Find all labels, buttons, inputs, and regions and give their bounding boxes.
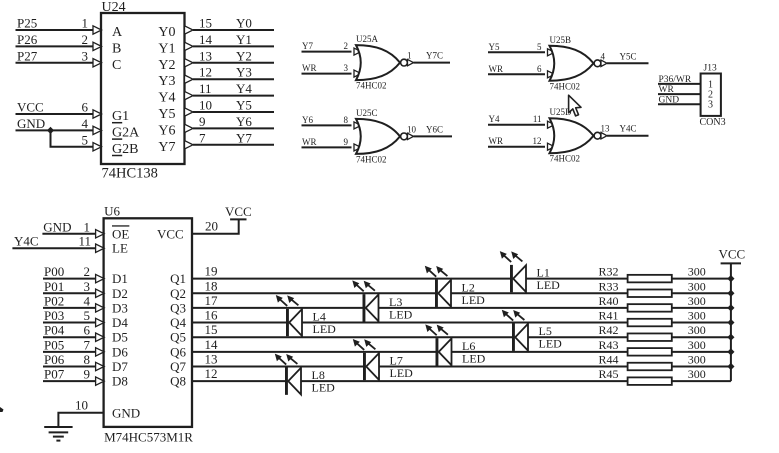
svg-text:74HC138: 74HC138 (102, 166, 158, 182)
wire LED L2 to resistor R33 (451, 292, 628, 294)
svg-text:74HC02: 74HC02 (356, 81, 387, 91)
wire P05 to U6 pin 7 (43, 351, 96, 353)
svg-text:LED: LED (389, 307, 413, 321)
svg-text:Y6: Y6 (158, 123, 175, 138)
svg-text:LED: LED (312, 381, 336, 395)
svg-text:13: 13 (199, 48, 212, 63)
svg-text:Y2: Y2 (158, 58, 175, 73)
wire U25C output to Y6C (414, 135, 453, 137)
wire P06 to U6 pin 8 (43, 366, 96, 368)
svg-text:J13: J13 (704, 64, 717, 74)
IC U24 74HC138 decoder body (101, 13, 185, 164)
svg-text:U25C: U25C (356, 108, 378, 118)
svg-text:WR: WR (302, 137, 317, 147)
svg-text:Q7: Q7 (170, 359, 186, 374)
svg-text:D6: D6 (112, 344, 128, 359)
LED L2 emission arrow 1 (425, 266, 436, 277)
svg-text:4: 4 (601, 51, 606, 61)
U24 pin name G1 (active low) (112, 109, 129, 124)
svg-text:R33: R33 (598, 279, 618, 293)
U25D pin 11 input arrow (548, 121, 555, 128)
wire LED L3 to resistor R40 (379, 307, 628, 309)
svg-text:11: 11 (533, 114, 542, 124)
U6 pin 6 input arrow (96, 333, 105, 341)
svg-text:2: 2 (84, 264, 91, 279)
wire U6 Q3 to LED L3 (192, 307, 363, 309)
svg-text:P06: P06 (44, 352, 65, 367)
wire U24 Y6 output (193, 127, 274, 129)
wire P01 to U6 pin 3 (43, 292, 96, 294)
svg-text:G2A: G2A (112, 125, 140, 140)
U6 pin 2 input arrow (96, 274, 105, 282)
wire U24 Y5 output (193, 111, 274, 113)
svg-text:Y0: Y0 (158, 25, 175, 40)
svg-text:Y7: Y7 (236, 130, 252, 145)
svg-text:17: 17 (205, 293, 219, 308)
U24 pin 5 input arrow (93, 143, 102, 151)
svg-text:R44: R44 (598, 353, 618, 367)
wire WR to J13 pin 2 (658, 93, 701, 95)
wire P04 to U6 pin 6 (43, 336, 96, 338)
LED L7 emission arrow 2 (364, 339, 375, 349)
svg-text:Y6: Y6 (236, 114, 252, 129)
wire resistor R44 to VCC rail (672, 366, 731, 368)
svg-text:G1: G1 (112, 109, 129, 124)
U25B pin 6 input arrow (548, 71, 555, 78)
svg-text:3: 3 (708, 100, 713, 111)
svg-text:3: 3 (84, 279, 91, 294)
resistor R42 body (628, 333, 672, 341)
svg-text:P27: P27 (17, 48, 38, 63)
LED L8 cathode bar (285, 367, 288, 394)
svg-text:LED: LED (462, 351, 486, 365)
svg-text:Y6C: Y6C (426, 124, 443, 134)
U25C output arrow (408, 133, 414, 139)
resistor R40 body (628, 304, 672, 312)
resistor R32 body (628, 275, 672, 283)
svg-text:WR: WR (489, 136, 504, 146)
svg-text:8: 8 (344, 115, 349, 125)
wire Y4 to U25D pin 11 (488, 124, 545, 126)
LED L8 emission arrow 1 (275, 354, 286, 365)
wire Y5 to U25B pin 5 (488, 51, 545, 53)
svg-text:R32: R32 (598, 265, 618, 279)
U24 pin 3 input arrow (93, 59, 102, 67)
resistor R43 body (628, 348, 672, 356)
wire GND branch down to U24 pin 5 (G2B) (51, 130, 94, 146)
svg-text:LED: LED (462, 293, 486, 307)
svg-text:Y0: Y0 (236, 16, 252, 31)
U25D output arrow (601, 133, 607, 139)
svg-text:R42: R42 (598, 323, 618, 337)
svg-text:Y3: Y3 (158, 74, 175, 89)
wire LED L7 to resistor R44 (379, 366, 628, 368)
svg-text:P03: P03 (44, 308, 64, 323)
wire resistor R42 to VCC rail (672, 336, 731, 338)
LED L1 emission arrow 2 (511, 251, 522, 261)
svg-text:LED: LED (539, 337, 563, 351)
wire U6 pin 10 to ground (58, 413, 103, 427)
svg-text:P07: P07 (44, 367, 65, 382)
wire P03 to U6 pin 5 (43, 322, 96, 324)
svg-text:Q5: Q5 (170, 330, 186, 345)
svg-text:Y4: Y4 (236, 81, 252, 96)
wire U6 Q6 to LED L6 (192, 351, 436, 353)
U25C pin 8 input arrow (354, 122, 361, 129)
wire P00 to U6 pin 2 (43, 278, 96, 280)
U24 pin name G2A (active low) (112, 125, 140, 140)
resistor R44 body (628, 363, 672, 371)
LED L5 emission arrow 1 (502, 310, 513, 321)
U6 pin 11 input arrow (96, 244, 105, 252)
svg-text:B: B (112, 41, 121, 56)
svg-text:U25B: U25B (550, 35, 572, 45)
svg-text:74HC02: 74HC02 (356, 154, 387, 164)
U25C output inversion bubble (401, 133, 408, 140)
svg-text:D7: D7 (112, 359, 128, 374)
VCC power symbol at U6 pin 20 (230, 218, 246, 220)
svg-text:300: 300 (688, 323, 706, 337)
U6 pin 1 input arrow (96, 230, 105, 238)
svg-text:2: 2 (82, 32, 89, 47)
U25D output inversion bubble (594, 132, 601, 139)
wire LED L5 to resistor R42 (528, 336, 628, 338)
resistor R41 body (628, 319, 672, 327)
U24 pin 11 output arrow (185, 91, 194, 99)
U25A pin 2 input arrow (354, 48, 361, 55)
wire GND to J13 pin 3 (658, 103, 701, 105)
svg-text:13: 13 (601, 124, 611, 134)
LED L4 triangle (289, 309, 302, 336)
ground symbol (44, 427, 72, 441)
wire WR to U25D pin 12 (488, 146, 545, 148)
svg-text:P05: P05 (44, 337, 64, 352)
wire U6 Q5 to LED L5 (192, 336, 512, 338)
svg-text:5: 5 (84, 308, 91, 323)
svg-text:GND: GND (17, 116, 45, 131)
svg-text:Y5: Y5 (158, 107, 175, 122)
LED L2 triangle (438, 280, 451, 307)
wire resistor R45 to VCC rail (672, 380, 731, 382)
svg-text:12: 12 (199, 65, 212, 80)
svg-text:G2B: G2B (112, 142, 138, 157)
wire LED L8 to resistor R45 (301, 380, 628, 382)
svg-text:14: 14 (205, 337, 219, 352)
svg-text:D5: D5 (112, 330, 128, 345)
svg-text:20: 20 (205, 218, 218, 233)
wire WR to U25A pin 3 (302, 73, 352, 75)
svg-text:300: 300 (688, 338, 706, 352)
NOR gate U25A body (356, 45, 400, 80)
svg-text:7: 7 (84, 337, 91, 352)
svg-text:WR: WR (302, 63, 317, 73)
wire U6 Q1 to LED L1 (192, 278, 510, 280)
svg-text:6: 6 (537, 64, 542, 74)
wire resistor R32 to VCC rail (672, 278, 731, 280)
svg-text:5: 5 (82, 132, 89, 147)
wire LED L4 to resistor R41 (302, 322, 628, 324)
svg-text:GND: GND (112, 405, 140, 420)
svg-text:LED: LED (390, 366, 414, 380)
svg-text:300: 300 (688, 294, 706, 308)
junction dot on VCC rail at R42 (727, 334, 734, 341)
wire WR to U25B pin 6 (488, 73, 545, 75)
LED L8 emission arrow 2 (286, 354, 297, 364)
LED L4 cathode bar (286, 309, 289, 336)
svg-text:Y1: Y1 (158, 41, 175, 56)
LED L3 cathode bar (363, 294, 366, 321)
svg-text:Y7C: Y7C (426, 51, 443, 61)
svg-text:Q4: Q4 (170, 315, 186, 330)
LED L8 triangle (288, 368, 301, 395)
svg-text:2: 2 (344, 41, 349, 51)
wire U25B output to Y5C (607, 62, 649, 64)
svg-text:Y5: Y5 (489, 42, 500, 52)
NOR gate U25D body (550, 118, 594, 153)
junction dot on VCC rail at R40 (727, 304, 734, 311)
svg-text:R40: R40 (598, 294, 618, 308)
U25A output arrow (408, 59, 414, 65)
svg-text:300: 300 (688, 265, 706, 279)
svg-text:74HC02: 74HC02 (550, 81, 581, 91)
U24 pin 15 output arrow (185, 26, 194, 34)
svg-text:D2: D2 (112, 286, 128, 301)
resistor R33 body (628, 290, 672, 298)
U25B output inversion bubble (594, 60, 601, 67)
wire U24 Y2 output (193, 62, 274, 64)
svg-text:OE: OE (112, 226, 129, 241)
svg-text:Q6: Q6 (170, 344, 186, 359)
svg-text:11: 11 (78, 234, 91, 249)
wire U25D output to Y4C (607, 135, 649, 137)
svg-text:1: 1 (82, 16, 89, 31)
svg-text:C: C (112, 58, 121, 73)
U6 pin 7 input arrow (96, 348, 105, 356)
wire resistor R33 to VCC rail (672, 292, 731, 294)
svg-text:18: 18 (205, 278, 218, 293)
junction dot on VCC rail at R41 (727, 319, 734, 326)
wire U24 Y0 output (193, 29, 274, 31)
svg-text:D1: D1 (112, 271, 128, 286)
svg-text:VCC: VCC (719, 247, 746, 262)
svg-text:Y4C: Y4C (620, 124, 637, 134)
U24 pin 4 input arrow (93, 126, 102, 134)
U24 pin 2 input arrow (93, 42, 102, 50)
svg-text:11: 11 (199, 81, 212, 96)
LED L3 emission arrow 2 (364, 281, 375, 291)
svg-text:13: 13 (205, 352, 218, 367)
LED L3 triangle (366, 295, 379, 322)
junction dot on VCC rail at R33 (727, 290, 734, 297)
LED L5 cathode bar (512, 324, 515, 351)
svg-text:D4: D4 (112, 315, 128, 330)
svg-text:VCC: VCC (225, 204, 252, 219)
wire LED L6 to resistor R43 (452, 351, 628, 353)
IC U6 M74HC573M1R latch body (104, 218, 192, 427)
svg-text:R41: R41 (598, 309, 618, 323)
svg-text:300: 300 (688, 353, 706, 367)
wire U6 pin 20 to VCC (192, 219, 239, 233)
svg-text:1: 1 (84, 219, 91, 234)
svg-text:4: 4 (84, 293, 91, 308)
U6 pin 8 input arrow (96, 362, 105, 370)
svg-text:12: 12 (205, 366, 218, 381)
wire GND to U24 pin 4 (G2A) (16, 129, 94, 131)
LED L7 emission arrow 1 (353, 339, 364, 350)
svg-text:10: 10 (75, 397, 88, 412)
svg-text:Y6: Y6 (302, 115, 313, 125)
svg-text:D8: D8 (112, 374, 128, 389)
wire P02 to U6 pin 4 (43, 307, 96, 309)
svg-text:A: A (112, 25, 123, 40)
LED L4 emission arrow 1 (276, 295, 287, 306)
U24 pin 12 output arrow (185, 75, 194, 83)
svg-text:LED: LED (313, 322, 337, 336)
U25C pin 9 input arrow (354, 144, 361, 151)
U24 pin 13 output arrow (185, 59, 194, 67)
svg-text:7: 7 (199, 130, 206, 145)
svg-text:9: 9 (199, 114, 206, 129)
U6 pin 5 input arrow (96, 318, 105, 326)
wire Y4C to U6 pin 11 (LE) (12, 247, 96, 249)
wire resistor R40 to VCC rail (672, 307, 731, 309)
junction dot on VCC rail at R32 (727, 275, 734, 282)
svg-text:P36/WR: P36/WR (659, 75, 692, 85)
svg-text:300: 300 (688, 309, 706, 323)
svg-text:300: 300 (688, 367, 706, 381)
LED L5 triangle (515, 324, 528, 351)
junction dot on GND net (47, 127, 54, 134)
wire U24 Y7 output (193, 144, 274, 146)
wire VCC to U24 pin 6 (G1) (16, 113, 94, 115)
svg-text:WR: WR (659, 85, 675, 95)
svg-text:Q2: Q2 (170, 286, 186, 301)
svg-text:1: 1 (407, 51, 412, 61)
U6 pin 4 input arrow (96, 304, 105, 312)
svg-text:Y5: Y5 (236, 98, 252, 113)
U25B pin 5 input arrow (548, 49, 555, 56)
junction dot on VCC rail at R44 (727, 363, 734, 370)
svg-text:Q8: Q8 (170, 374, 186, 389)
svg-text:P25: P25 (17, 16, 37, 31)
U24 pin 14 output arrow (185, 42, 194, 50)
wire P07 to U6 pin 9 (43, 380, 96, 382)
svg-text:Y3: Y3 (236, 65, 252, 80)
svg-text:10: 10 (407, 124, 417, 134)
U24 pin 7 output arrow (185, 141, 194, 149)
U24 pin 9 output arrow (185, 124, 194, 132)
U25A pin 3 input arrow (354, 70, 361, 77)
wire LED L1 to resistor R32 (526, 278, 628, 280)
U25D pin 12 input arrow (548, 143, 555, 150)
resistor R45 body (628, 377, 672, 385)
wire WR to U25C pin 9 (302, 146, 352, 148)
svg-text:VCC: VCC (17, 100, 44, 115)
LED L2 cathode bar (435, 280, 438, 307)
wire resistor R43 to VCC rail (672, 351, 731, 353)
svg-text:10: 10 (199, 98, 212, 113)
VCC power symbol bar on rail (721, 262, 741, 264)
junction dot on VCC rail at R43 (727, 348, 734, 355)
U24 pin 10 output arrow (185, 108, 194, 116)
wire U24 Y4 output (193, 95, 274, 97)
wire U24 Y1 output (193, 45, 274, 47)
LED L4 emission arrow 2 (287, 295, 298, 305)
LED L2 emission arrow 2 (436, 266, 447, 276)
U6 pin 9 input arrow (96, 377, 105, 385)
U25B output arrow (601, 60, 607, 66)
svg-text:R45: R45 (598, 367, 618, 381)
svg-text:U24: U24 (102, 0, 126, 15)
svg-text:U6: U6 (104, 204, 120, 219)
svg-text:U25A: U25A (356, 34, 378, 44)
svg-text:12: 12 (533, 136, 542, 146)
svg-text:R43: R43 (598, 338, 618, 352)
wire GND to U6 pin 1 (OE) (42, 233, 96, 235)
wire P26 to U24 pin 2 (16, 45, 94, 47)
svg-text:14: 14 (199, 32, 213, 47)
wire P36/WR to J13 pin 1 (658, 83, 701, 85)
svg-text:15: 15 (199, 16, 212, 31)
svg-text:Y7: Y7 (158, 140, 175, 155)
wire Y7 to U25A pin 2 (302, 51, 352, 53)
U25A output inversion bubble (401, 59, 408, 66)
LED L5 emission arrow 2 (513, 310, 524, 320)
svg-text:6: 6 (82, 100, 89, 115)
LED L7 triangle (366, 353, 379, 380)
NOR gate U25B body (550, 46, 594, 81)
svg-text:Y2: Y2 (236, 48, 252, 63)
U6 pin 3 input arrow (96, 289, 105, 297)
LED L1 emission arrow 1 (500, 251, 511, 262)
U24 pin 1 input arrow (93, 26, 102, 34)
svg-text:LE: LE (112, 241, 128, 256)
svg-text:3: 3 (344, 63, 349, 73)
svg-text:6: 6 (84, 323, 91, 338)
wire U6 Q7 to LED L7 (192, 366, 363, 368)
wire resistor R41 to VCC rail (672, 322, 731, 324)
svg-text:19: 19 (205, 264, 218, 279)
svg-text:3: 3 (82, 48, 89, 63)
svg-text:GND: GND (659, 95, 680, 105)
wire P25 to U24 pin 1 (16, 29, 94, 31)
wire U6 Q4 to LED L4 (192, 322, 286, 324)
svg-text:300: 300 (688, 279, 706, 293)
svg-text:P00: P00 (44, 264, 64, 279)
svg-text:9: 9 (344, 137, 349, 147)
svg-text:D3: D3 (112, 300, 128, 315)
LED L7 cathode bar (363, 353, 366, 380)
LED L6 emission arrow 2 (437, 325, 448, 335)
LED L1 cathode bar (510, 265, 513, 292)
svg-text:Y4C: Y4C (14, 234, 39, 249)
svg-text:Y1: Y1 (236, 32, 252, 47)
wire P27 to U24 pin 3 (16, 62, 94, 64)
stray mark at left edge (0, 407, 4, 412)
NOR gate U25C body (356, 119, 400, 154)
svg-text:16: 16 (205, 308, 219, 323)
mouse cursor (569, 95, 581, 116)
svg-text:CON3: CON3 (700, 117, 726, 128)
U24 pin name G2B (active low) (112, 142, 138, 157)
svg-text:Q1: Q1 (170, 271, 186, 286)
connector J13 body (701, 74, 721, 116)
LED L6 emission arrow 1 (425, 324, 436, 335)
svg-text:Q3: Q3 (170, 300, 186, 315)
wire U24 Y3 output (193, 78, 274, 80)
svg-text:4: 4 (82, 116, 89, 131)
wire Y6 to U25C pin 8 (302, 124, 352, 126)
